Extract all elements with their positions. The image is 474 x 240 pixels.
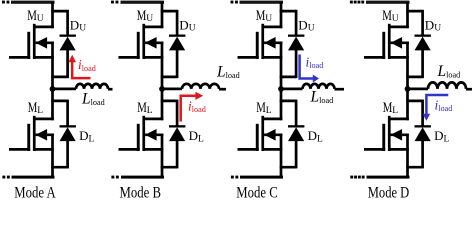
wire: drain lead from rail to MA-upper: [51, 2, 54, 28]
inductor Lload (Mode A): [76, 84, 108, 89]
wire: lower diode branch top: [51, 100, 67, 127]
wire: upper diode branch bottom: [406, 76, 422, 79]
svg-text:Lload: Lload: [216, 63, 240, 80]
node: DC bus continuation dots (top, Mode C): [231, 1, 238, 4]
node: phase midpoint junction (Mode C): [278, 86, 284, 92]
wire: upper diode branch top: [161, 10, 177, 36]
svg-text:MU: MU: [27, 8, 44, 24]
svg-text:ML: ML: [137, 100, 153, 116]
node: phase midpoint junction (Mode A): [50, 86, 56, 92]
diode DL (Mode C): [288, 125, 304, 168]
svg-text:MU: MU: [256, 8, 273, 24]
wire: midpoint to load inductor: [53, 88, 77, 91]
svg-text:ML: ML: [256, 100, 272, 116]
transistor MU upper MOSFET (Mode C): [238, 24, 283, 59]
wire: lower diode branch bottom: [406, 166, 422, 169]
svg-text:DU: DU: [298, 17, 314, 33]
svg-text:DL: DL: [189, 128, 204, 144]
diode DU (Mode C): [288, 35, 304, 79]
wire: upper diode branch bottom: [51, 76, 67, 79]
wire: drain lead from rail to MC-upper: [280, 2, 283, 28]
inductor Lload (Mode B): [182, 84, 219, 89]
wire: lower diode branch top: [406, 100, 422, 127]
wire: inductor tail to load: [219, 88, 226, 91]
transistor MU upper MOSFET (Mode D): [364, 24, 409, 59]
node: DC bus continuation dots (bottom, Mode C): [231, 176, 238, 179]
svg-text:Mode B: Mode B: [120, 185, 162, 200]
wire: lower source lead to negative rail: [51, 134, 54, 178]
wire: inductor tail to load: [108, 88, 113, 91]
current arrow iload (Mode B): [181, 92, 204, 122]
wire: lower diode branch bottom: [51, 166, 67, 169]
transistor ML lower MOSFET (Mode D): [364, 116, 409, 151]
transistor MU upper MOSFET (Mode B): [119, 24, 164, 59]
wire: negative DC rail (Mode C): [240, 176, 283, 179]
node: DC bus continuation dots (top, Mode B): [111, 1, 118, 4]
wire: inductor tail to load: [466, 88, 472, 91]
svg-text:iload: iload: [188, 98, 206, 114]
transistor ML lower MOSFET (Mode C): [238, 116, 283, 151]
transistor ML lower MOSFET (Mode A): [9, 116, 54, 151]
wire: positive DC rail (Mode B): [121, 1, 165, 4]
wire: phase leg vertical (source of MU to drain of ML): [406, 42, 409, 121]
node: DC bus continuation dots (top, Mode A): [2, 1, 9, 4]
wire: upper diode branch bottom: [280, 76, 296, 79]
node: DC bus continuation dots (bottom, Mode D): [350, 176, 364, 179]
inductor Lload (Mode C): [303, 84, 335, 89]
wire: lower diode branch bottom: [161, 166, 177, 169]
diode DL (Mode B): [169, 125, 185, 168]
wire: midpoint to load inductor: [162, 88, 182, 91]
node: DC bus continuation dots (top, Mode D): [350, 1, 364, 4]
wire: positive DC rail (Mode A): [11, 1, 55, 4]
wire: lower source lead to negative rail: [161, 134, 164, 178]
wire: lower source lead to negative rail: [280, 134, 283, 178]
diode DU (Mode B): [169, 35, 185, 79]
svg-text:ML: ML: [28, 100, 44, 116]
wire: upper diode branch bottom: [161, 76, 177, 79]
diode DL (Mode A): [60, 125, 76, 168]
node: phase midpoint junction (Mode B): [159, 86, 165, 92]
current arrow iload (Mode D): [423, 95, 449, 121]
wire: lower diode branch top: [280, 100, 296, 127]
wire: positive DC rail (Mode C): [240, 1, 284, 4]
svg-text:DU: DU: [70, 17, 86, 33]
wire: drain lead from rail to MD-upper: [406, 2, 409, 28]
diode DL (Mode D): [415, 125, 431, 168]
wire: negative DC rail (Mode D): [367, 176, 410, 179]
svg-text:Mode D: Mode D: [368, 185, 410, 200]
svg-text:Lload: Lload: [437, 63, 461, 80]
diode DU (Mode A): [60, 35, 76, 79]
inductor Lload (Mode D): [428, 82, 466, 89]
svg-text:Mode C: Mode C: [236, 185, 278, 200]
svg-text:DL: DL: [308, 128, 323, 144]
node: phase midpoint junction (Mode D): [405, 86, 411, 92]
transistor ML lower MOSFET (Mode B): [119, 116, 164, 151]
svg-text:MU: MU: [382, 8, 399, 24]
diode DU (Mode D): [415, 35, 431, 79]
node: DC bus continuation dots (bottom, Mode A): [2, 176, 9, 179]
svg-text:DL: DL: [79, 128, 94, 144]
wire: upper diode branch top: [406, 10, 422, 36]
svg-text:iload: iload: [78, 57, 96, 73]
svg-text:iload: iload: [435, 98, 453, 114]
wire: midpoint to load inductor: [281, 88, 303, 91]
wire: phase leg vertical (source of MU to drain of ML): [280, 42, 283, 121]
svg-text:Lload: Lload: [81, 90, 105, 107]
wire: drain lead from rail to MB-upper: [161, 2, 164, 28]
node: DC bus continuation dots (bottom, Mode B): [111, 176, 118, 179]
wire: negative DC rail (Mode B): [121, 176, 164, 179]
wire: phase leg vertical (source of MU to drain of ML): [161, 42, 164, 121]
current arrow iload (Mode C): [300, 55, 319, 83]
wire: negative DC rail (Mode A): [12, 176, 55, 179]
wire: inductor tail to load: [335, 88, 345, 91]
wire: midpoint to load inductor: [408, 88, 429, 91]
svg-text:Mode A: Mode A: [14, 185, 56, 200]
svg-text:MU: MU: [137, 8, 154, 24]
wire: phase leg vertical (source of MU to drain of ML): [51, 42, 54, 121]
svg-text:DU: DU: [179, 17, 195, 33]
wire: lower source lead to negative rail: [406, 134, 409, 178]
wire: upper diode branch top: [51, 10, 67, 36]
transistor MU upper MOSFET (Mode A): [9, 24, 54, 59]
svg-text:iload: iload: [306, 55, 324, 71]
wire: upper diode branch top: [280, 10, 296, 36]
current arrow iload (Mode A): [68, 55, 90, 78]
wire: positive DC rail (Mode D): [366, 1, 410, 4]
svg-text:ML: ML: [383, 100, 399, 116]
wire: lower diode branch top: [161, 100, 177, 127]
svg-text:DL: DL: [434, 128, 449, 144]
wire: lower diode branch bottom: [280, 166, 296, 169]
svg-text:Lload: Lload: [310, 88, 334, 105]
svg-text:DU: DU: [425, 17, 441, 33]
